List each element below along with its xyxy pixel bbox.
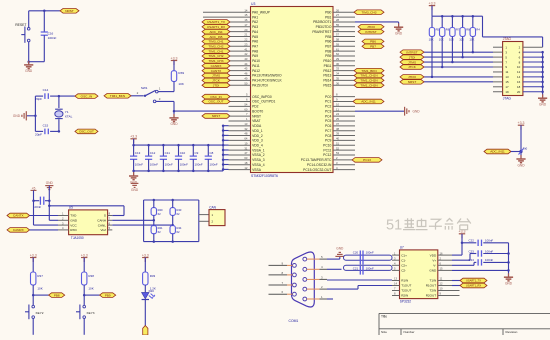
resistor R4 10K (JTAG pull-up) [472, 15, 475, 18]
U3 pin 51 PC10 [333, 144, 355, 146]
svg-text:C8: C8 [210, 151, 214, 155]
net label PB9 [100, 293, 116, 298]
JTAG pin 7 / pin 8 [493, 61, 503, 63]
net label INTRST (JTAG) [400, 50, 424, 55]
net label TIM1_CH2 (PA9) [202, 54, 230, 59]
svg-text:20: 20 [517, 90, 521, 94]
pushbutton RESET [27, 28, 30, 31]
COM1 pin 1 [303, 297, 307, 301]
svg-text:62: 62 [336, 52, 340, 56]
U3 pin 56 PB4/INTRST [333, 31, 355, 33]
svg-text:PA3: PA3 [252, 25, 258, 29]
wire power rail to MCU pin, junction [223, 130, 228, 132]
wire power rail to MCU pin, junction [223, 159, 228, 161]
pushbutton KEY3 [83, 305, 86, 308]
node gnd/cap junction [48, 199, 51, 202]
svg-text:PC11: PC11 [323, 148, 331, 152]
net label ADC_IN11 (divider) [484, 149, 511, 154]
svg-text:PC12: PC12 [323, 153, 331, 157]
svg-text:47: 47 [244, 151, 248, 155]
wire PC4 to ground [355, 110, 404, 112]
resistor R40 62 (CAN termination) [151, 208, 156, 216]
U3 pin 12 VSSA [229, 169, 251, 171]
wire R33 to LED [144, 285, 146, 292]
svg-text:PC14-OSC32-IN: PC14-OSC32-IN [307, 163, 332, 167]
net label PB7 [362, 44, 384, 49]
svg-text:R38: R38 [88, 274, 94, 278]
resistor R38 10K [82, 272, 87, 285]
svg-text:64: 64 [244, 137, 248, 141]
U3 pin 49 PA14/JTCK/SWCLK [229, 79, 251, 81]
capacitor C15 20pF [35, 130, 43, 132]
svg-text:100nF: 100nF [366, 266, 374, 270]
svg-text:PC4: PC4 [325, 114, 332, 118]
svg-text:100nF: 100nF [485, 239, 493, 243]
svg-text:PB6: PB6 [370, 40, 376, 44]
svg-text:T2IN: T2IN [429, 289, 436, 293]
wire R4 to JTAG row [472, 37, 474, 53]
svg-text:18: 18 [244, 161, 248, 165]
svg-text:10K: 10K [37, 287, 42, 291]
svg-text:RXD: RXD [70, 228, 77, 232]
svg-text:STM32F103R8T6: STM32F103R8T6 [251, 174, 278, 178]
capacitor C20 100nF (charge pump) [344, 255, 393, 260]
JTAG pin 19 / pin 20 [493, 91, 503, 93]
svg-text:+5: +5 [32, 186, 36, 190]
CAN transceiver U5 TJA1050 body [69, 210, 108, 235]
svg-text:29: 29 [336, 57, 340, 61]
U3 pin 62 PB9 [333, 55, 355, 57]
net label JTDO (PB3) [358, 25, 384, 30]
svg-text:38: 38 [336, 127, 340, 131]
svg-text:PB0: PB0 [325, 10, 331, 14]
svg-text:PC13-TAMPER-RTC: PC13-TAMPER-RTC [301, 158, 332, 162]
svg-text:T1OUT: T1OUT [401, 284, 411, 288]
U3 pin 57 PB5 [333, 36, 355, 38]
svg-text:PB7: PB7 [325, 44, 331, 48]
wire power rail to MCU pin, junction [223, 154, 228, 156]
COM1 pin 2 [303, 287, 307, 291]
RS232 driver U7 SP3232 body [400, 250, 438, 299]
net label JTCK (PA14) [202, 78, 230, 83]
svg-text:OSC_OUT: OSC_OUT [79, 130, 94, 134]
svg-text:PA4: PA4 [252, 30, 258, 34]
wire CANRX to U5 RXD [30, 229, 58, 231]
U3 pin 27 PB1 [333, 16, 355, 18]
LED D20 [142, 293, 149, 299]
svg-text:13: 13 [244, 122, 248, 126]
U3 pin 4 PC15-OSC32-OUT [333, 169, 355, 171]
svg-text:D20: D20 [149, 289, 155, 293]
net label CANRX (PA11) [202, 63, 230, 68]
wire LED to port [144, 300, 146, 326]
capacitor C10 100nF [178, 145, 180, 156]
svg-text:61: 61 [336, 47, 340, 51]
svg-text:VSSA: VSSA [252, 168, 262, 172]
svg-text:10K: 10K [178, 82, 184, 86]
svg-text:JTMS: JTMS [408, 60, 416, 64]
svg-text:10K: 10K [449, 38, 454, 42]
svg-text:TIM1_CH1N: TIM1_CH1N [360, 74, 377, 78]
svg-text:33: 33 [336, 67, 340, 71]
svg-text:PA9: PA9 [252, 54, 258, 58]
U3 pin 9 PC1 [333, 100, 355, 102]
U3 pin 2 PC13-TAMPER-RTC [333, 159, 355, 161]
U3 pin 47 VSSA_2 [229, 154, 251, 156]
svg-text:CANTX: CANTX [13, 214, 24, 218]
svg-text:100nF: 100nF [485, 258, 493, 262]
svg-text:PB3/JTDO: PB3/JTDO [316, 25, 332, 29]
wire bottom of reset circuit [29, 61, 45, 63]
svg-text:VDD_4: VDD_4 [252, 144, 263, 148]
svg-text:PC9: PC9 [325, 139, 332, 143]
wire power rail to MCU pin, junction [223, 134, 228, 136]
svg-text:V+: V+ [432, 258, 436, 262]
wire power rail to MCU pin, junction [223, 125, 228, 127]
svg-text:60: 60 [244, 107, 248, 111]
wire gnd to U5 GND pin [48, 201, 50, 221]
svg-text:JTAG: JTAG [503, 97, 512, 101]
U5 pin 3 VCC [58, 224, 69, 226]
node PB8 junction [32, 294, 35, 297]
resistor R5 10K (JTAG pull-up) [431, 16, 433, 27]
svg-text:R33: R33 [150, 274, 156, 278]
svg-text:PB8: PB8 [54, 293, 60, 297]
svg-text:CAN: CAN [209, 205, 216, 209]
U3 pin 48 VDD_2 [229, 135, 251, 137]
resistor R39 10K [171, 71, 176, 82]
U7 pin 2 V+ [438, 259, 452, 261]
svg-text:R37: R37 [37, 274, 43, 278]
svg-text:VCC: VCC [70, 223, 77, 227]
JTAG pin 15 / pin 16 [493, 81, 503, 83]
wire power rail to MCU pin, junction [223, 144, 228, 146]
svg-text:NRST: NRST [65, 9, 74, 13]
JTAG pin 11 / pin 12 [493, 71, 503, 73]
svg-text:PA0_WKUP: PA0_WKUP [252, 10, 271, 14]
svg-text:+3.3: +3.3 [130, 135, 137, 139]
wire termination column [172, 200, 174, 208]
svg-text:U3: U3 [251, 2, 255, 6]
wire crystal top [58, 96, 60, 108]
svg-text:JTDO: JTDO [367, 25, 376, 29]
net label JTCK (JTAG) [400, 65, 424, 70]
svg-text:PA14/JTCK/SWCLK: PA14/JTCK/SWCLK [252, 79, 282, 83]
svg-text:42: 42 [244, 52, 248, 56]
U7 pin 15 GND [438, 269, 452, 271]
COM1 pin 5 [303, 257, 307, 261]
svg-text:58: 58 [336, 38, 340, 42]
svg-text:14: 14 [394, 282, 397, 286]
svg-text:Number: Number [404, 330, 415, 334]
wire JTAG signal row JTDI [424, 56, 493, 58]
svg-text:R1OUT: R1OUT [426, 284, 437, 288]
capacitor C16 100nF [43, 11, 45, 32]
svg-text:NRST: NRST [212, 114, 221, 118]
svg-text:+3.3: +3.3 [429, 1, 436, 5]
COM1 pin 6 [293, 292, 297, 296]
svg-text:16: 16 [517, 80, 521, 84]
svg-text:U5: U5 [69, 206, 73, 210]
U5 pin 7 CANH [108, 219, 113, 221]
ground left-pointing near crystal [25, 111, 27, 120]
net label ADC_IN4 (PA4) [202, 29, 230, 34]
U3 pin 63 VSSA_3 [229, 159, 251, 161]
svg-text:31: 31 [244, 146, 248, 150]
U7 pin 13 R1IN [392, 280, 400, 282]
svg-text:40: 40 [336, 137, 340, 141]
U3 pin 21 PA5 [229, 36, 251, 38]
U3 pin 54 PD2 [229, 105, 251, 107]
svg-text:10K: 10K [439, 38, 444, 42]
svg-text:13: 13 [394, 277, 397, 281]
net label INTRST (PB4) [358, 29, 384, 34]
COM1 pin 7 [293, 283, 297, 287]
U7 pin 3 C1- [392, 259, 400, 261]
ground below reset button [28, 62, 30, 64]
svg-text:100nF: 100nF [48, 36, 57, 40]
U3 pin 14 PA0_WKUP [229, 11, 251, 13]
svg-text:35: 35 [336, 76, 340, 80]
svg-text:C2+: C2+ [401, 264, 407, 268]
svg-text:10: 10 [440, 287, 443, 291]
U3 pin 23 PA7 [229, 45, 251, 47]
net label USART1_RX (RS232) [460, 283, 487, 288]
COM1 pin 9 [293, 264, 297, 268]
net label TIM1_CH3N (PB15) [354, 83, 384, 88]
svg-text:27: 27 [336, 13, 340, 17]
svg-text:VSSA_1: VSSA_1 [252, 148, 265, 152]
capacitor C12 100nF [148, 145, 150, 156]
svg-text:GND: GND [336, 246, 344, 250]
svg-text:JTDI: JTDI [213, 83, 220, 87]
svg-text:TIM1_CH3N: TIM1_CH3N [360, 83, 377, 87]
U3 pin 25 PC5 [333, 120, 355, 122]
net label TIM1_CH2N (PB14) [354, 78, 384, 83]
wire stub PA0 [203, 11, 229, 13]
svg-text:C12: C12 [150, 151, 156, 155]
svg-text:R1IN: R1IN [401, 279, 408, 283]
svg-text:C11: C11 [165, 151, 171, 155]
svg-text:11: 11 [505, 70, 508, 74]
svg-text:51: 51 [336, 141, 340, 145]
wire stub PA1 [203, 16, 229, 18]
wire JTAG signal row JTDO [424, 76, 493, 78]
U3 pin 38 PC7 [333, 130, 355, 132]
svg-text:OSC_OUT: OSC_OUT [209, 100, 224, 104]
svg-text:BOOT0: BOOT0 [252, 109, 263, 113]
U3 pin 7 NRST [229, 115, 251, 117]
wire +3.3 to R33 [144, 258, 146, 273]
svg-text:100nF: 100nF [366, 251, 374, 255]
net label OSC_OUT (crystal side) [75, 129, 98, 134]
U3 pin 20 PA4 [229, 31, 251, 33]
svg-text:CANTX: CANTX [211, 69, 222, 73]
svg-text:54: 54 [244, 102, 248, 106]
wire left rail of crystal block [34, 96, 36, 131]
svg-text:ADC_IN11: ADC_IN11 [361, 100, 376, 104]
U7 pin 11 T1IN [438, 280, 452, 282]
ground floating near termination [131, 182, 139, 184]
svg-text:18: 18 [517, 85, 521, 89]
svg-text:CANH: CANH [97, 219, 106, 223]
U3 pin 28 PB2/BOOT1 [333, 21, 355, 23]
wire label to node [511, 151, 521, 153]
net label TIM1_CH3 (PA10) [202, 59, 230, 64]
svg-text:NRST: NRST [408, 80, 417, 84]
svg-text:34: 34 [336, 72, 340, 76]
svg-text:100nF: 100nF [180, 163, 188, 167]
wire JTAG ground rail [542, 52, 544, 97]
svg-text:R39: R39 [178, 71, 184, 75]
U7 pin 7 T2OUT [392, 290, 400, 292]
svg-text:CANL: CANL [98, 223, 107, 227]
svg-text:PC8: PC8 [325, 134, 332, 138]
wire SW1 contact 3 to BOOT0 [156, 100, 174, 102]
net label JTDI (JTAG) [400, 55, 424, 60]
wire JTAG signal row NRST [424, 81, 493, 83]
resistor R41 62 (CAN termination) [151, 226, 156, 234]
wire +3.3 to R39 [173, 61, 175, 71]
svg-text:JTCK: JTCK [212, 79, 221, 83]
U3 pin 19 VDD_4 [229, 144, 251, 146]
svg-text:62: 62 [177, 230, 180, 234]
wire JTAG signal row JTCK [424, 66, 493, 68]
U3 pin 16 PA2 [229, 21, 251, 23]
svg-text:TIM1_CH2N: TIM1_CH2N [360, 79, 377, 83]
svg-text:30: 30 [336, 62, 340, 66]
svg-text:44: 44 [244, 62, 248, 66]
svg-text:53: 53 [336, 151, 340, 155]
node C22 junction [461, 242, 464, 245]
svg-text:Revision: Revision [506, 330, 518, 334]
capacitor 100nF CAN decoupling [34, 200, 40, 202]
U7 pin 1 C1+ [392, 254, 400, 256]
net label NRST (JTAG) [400, 80, 424, 85]
svg-text:PC5: PC5 [325, 119, 332, 123]
svg-text:USART1_RX: USART1_RX [207, 25, 225, 29]
U3 pin 26 PB0 [333, 11, 355, 13]
svg-text:R44: R44 [177, 226, 182, 230]
svg-text:PA7: PA7 [252, 44, 258, 48]
svg-text:C21: C21 [353, 266, 359, 270]
net label OSC_IN (MCU) [202, 94, 230, 99]
wire CANTX to U5 TXD [30, 215, 58, 217]
U3 pin 30 PB11 [333, 65, 355, 67]
U3 pin 3 PC14-OSC32-IN [333, 164, 355, 166]
svg-text:37: 37 [336, 122, 340, 126]
svg-text:PC3: PC3 [325, 109, 332, 113]
wire MCU power rail vertical [222, 126, 224, 171]
U3 pin 17 PA3 [229, 26, 251, 28]
svg-text:17: 17 [244, 23, 248, 27]
svg-text:USART1_RX: USART1_RX [466, 284, 482, 288]
svg-text:PA11: PA11 [252, 64, 260, 68]
JTAG pin 5 / pin 6 [493, 56, 503, 58]
node junction reset bottom [27, 60, 30, 63]
U3 pin 37 PC6 [333, 125, 355, 127]
svg-text:OSC_IN/PD0: OSC_IN/PD0 [252, 95, 272, 99]
wire below KEY2 [32, 318, 34, 334]
wire to ground left of crystal [27, 115, 36, 117]
svg-text:Vref: Vref [100, 228, 106, 232]
svg-text:100nF: 100nF [33, 205, 41, 209]
svg-text:JTDI: JTDI [409, 55, 416, 59]
U3 pin 61 PB8 [333, 50, 355, 52]
svg-text:TIM1_CH2: TIM1_CH2 [209, 54, 224, 58]
svg-text:20: 20 [244, 28, 248, 32]
wire COM1 pin5 to ground [327, 258, 340, 260]
svg-text:22: 22 [244, 38, 248, 42]
svg-text:20pF: 20pF [35, 133, 42, 137]
svg-text:PB14: PB14 [323, 79, 331, 83]
svg-text:PA1: PA1 [252, 15, 258, 19]
svg-text:C2-: C2- [401, 269, 406, 273]
JTAG connector J1 body [503, 42, 523, 96]
svg-text:19: 19 [505, 90, 509, 94]
svg-text:PB4/INTRST: PB4/INTRST [312, 30, 331, 34]
svg-text:PB13: PB13 [323, 74, 331, 78]
capacitor C8 100nF [207, 145, 209, 156]
wire +3.3 feed to JTAG pin 2 [482, 16, 484, 37]
svg-text:TIM1_CH3: TIM1_CH3 [209, 59, 224, 63]
net label TIM1_BKN (PB12) [354, 68, 384, 73]
net label TIM3_CH1 (PA6) [202, 39, 230, 44]
wire decoupling top rail (VDD) [134, 144, 224, 146]
U3 pin 24 PC4 [333, 115, 355, 117]
svg-text:43: 43 [244, 57, 248, 61]
wire +3.3 to top rail [133, 139, 135, 145]
svg-text:JTAG: JTAG [503, 37, 512, 41]
net label port (vertical, cut off) [143, 326, 148, 336]
svg-text:GND: GND [429, 269, 437, 273]
net label TIM3_CH2 (PA7) [202, 44, 230, 49]
svg-text:VDD_3: VDD_3 [252, 139, 263, 143]
svg-text:17: 17 [505, 85, 509, 89]
svg-text:GND: GND [13, 114, 21, 118]
svg-text:PA8: PA8 [252, 49, 258, 53]
wire U7 V- to C24 [452, 264, 474, 266]
net label ADC_IN11 (PC1) [353, 99, 384, 104]
svg-text:10K: 10K [469, 38, 474, 42]
svg-text:10: 10 [517, 65, 521, 69]
U3 pin 34 PB13 [333, 75, 355, 77]
svg-text:26: 26 [336, 8, 340, 12]
svg-text:SP3232: SP3232 [400, 300, 412, 304]
svg-text:15: 15 [440, 267, 443, 271]
svg-text:OSC_IN: OSC_IN [210, 95, 222, 99]
wire +3.3 to U7 VDD [461, 234, 463, 255]
wire +3.3 to R38 [83, 258, 85, 273]
U7 pin 14 T1OUT [392, 285, 400, 287]
svg-text:46: 46 [244, 72, 248, 76]
svg-text:V-: V- [433, 264, 436, 268]
svg-text:13: 13 [505, 75, 509, 79]
svg-text:51: 51 [386, 218, 402, 234]
svg-text:RESET: RESET [15, 23, 26, 27]
wire gnd to U5 S pin (over chip) [48, 205, 51, 208]
svg-text:R41: R41 [158, 226, 163, 230]
U3 pin 36 PB15 [333, 84, 355, 86]
svg-text:U7: U7 [400, 246, 404, 250]
svg-text:C24: C24 [469, 258, 475, 262]
wire COM1 pin4 stub [327, 268, 342, 270]
svg-text:PA2: PA2 [252, 20, 258, 24]
U3 pin 11 PC3 [333, 110, 355, 112]
svg-text:C15: C15 [43, 124, 49, 128]
net label OSC_IN (crystal side) [75, 94, 98, 99]
net label CANRX [7, 228, 30, 233]
